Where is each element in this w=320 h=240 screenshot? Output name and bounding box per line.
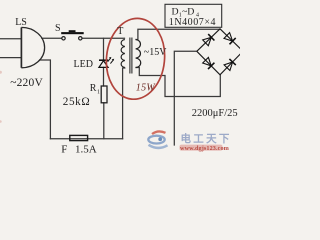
svg-text:www.dgjs123.com: www.dgjs123.com xyxy=(180,145,230,152)
svg-text:~220V: ~220V xyxy=(10,77,43,89)
svg-text:LS: LS xyxy=(15,17,27,28)
svg-text:S: S xyxy=(55,23,61,34)
svg-text:LED: LED xyxy=(74,59,93,70)
svg-text:电工天下: 电工天下 xyxy=(181,132,232,145)
svg-text:1N4007×4: 1N4007×4 xyxy=(169,17,216,28)
svg-text:15W: 15W xyxy=(136,82,157,93)
svg-text:R: R xyxy=(90,83,97,94)
svg-text:T: T xyxy=(117,26,123,37)
svg-text:1: 1 xyxy=(97,90,100,96)
svg-text:F: F xyxy=(61,144,67,156)
svg-text:25kΩ: 25kΩ xyxy=(63,96,91,108)
svg-text:~D: ~D xyxy=(182,7,194,18)
svg-text:2200μF/25: 2200μF/25 xyxy=(192,108,238,119)
svg-text:1.5A: 1.5A xyxy=(75,144,97,156)
svg-text:D: D xyxy=(172,7,179,18)
svg-text:~15V: ~15V xyxy=(144,47,167,58)
